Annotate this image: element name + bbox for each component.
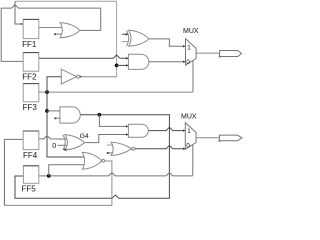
wire FF1 D input from top rail <box>15 1 23 24</box>
flip-flop FF1 <box>23 19 39 38</box>
wire FF1 output to OR0 top input <box>39 27 63 29</box>
svg-text:MUX: MUX <box>181 113 197 120</box>
or-gate OR0 (top) <box>60 23 80 38</box>
svg-text:FF1: FF1 <box>22 40 37 49</box>
node pin2 corner dot <box>219 140 221 142</box>
wire XOR1 output to MUX1 input 1 <box>149 39 186 46</box>
svg-text:FF3: FF3 <box>23 103 38 112</box>
wire MUX2 output to pin <box>196 137 219 139</box>
wire MUX1 select from FF3 output <box>192 61 194 93</box>
nor-gate OR3 (bottom right) <box>111 142 131 155</box>
wire OR3 output to MUX2 input 0, hop at x=169.4 <box>135 145 186 148</box>
wire FF5 output rail with hops at x=111.9 and x=169.4 <box>39 173 193 176</box>
and-gate AND0 (top right) <box>128 54 148 69</box>
flip-flop FF4 <box>23 131 39 150</box>
wire FF2 output to AND0 top input with hop at x=116.6 <box>39 55 129 58</box>
wire OR4 output loop to FF4 input <box>4 161 112 205</box>
and-gate AND1 (left middle) <box>60 107 80 123</box>
node junction dot FF5 output <box>47 174 51 178</box>
svg-text:0: 0 <box>186 143 190 150</box>
output pin PIN1 <box>220 51 242 57</box>
wire FF5 output branch to OR4 bottom input <box>49 165 86 176</box>
node junction dot FF3 output at x=47 <box>45 90 49 94</box>
wire AND2 output to MUX2 input 1, hop at x=169.4 <box>148 127 185 130</box>
svg-text:G4: G4 <box>80 133 89 140</box>
svg-text:0: 0 <box>186 59 190 66</box>
flip-flop FF3 <box>23 84 39 102</box>
wire OR3 bottom input stub (unconnected) <box>107 152 114 154</box>
svg-text:1: 1 <box>187 45 191 52</box>
svg-text:1: 1 <box>187 128 191 135</box>
wire FF4 output to G4 top input, hop at x=47 <box>39 136 67 140</box>
xor-gate XOR1 (top right) <box>129 30 149 46</box>
wire MUX2 select from FF5 output <box>192 145 194 176</box>
wire AND1 output feedback to FF5 input, hop at x=111.9 <box>15 115 169 199</box>
wire AND0 output to MUX1 input 0 <box>149 61 186 63</box>
wire AND0 lower input <box>117 64 129 66</box>
wire x=47 vertical rail to inverter input and OR4 <box>47 77 86 157</box>
node junction dot AND1 output branch <box>98 113 102 117</box>
wire OR0 output loop to FF2 input, hop at x=15 <box>1 5 101 62</box>
mux MUX2 <box>185 123 196 149</box>
output pin PIN2 <box>219 135 242 141</box>
inverter INV <box>61 69 76 84</box>
wire XOR1 top input stub <box>122 33 128 35</box>
node junction dot AND0 lower input <box>115 64 119 68</box>
wire G4 output to AND2 bottom input <box>84 135 128 143</box>
and-gate AND2 (bottom right) <box>128 124 148 137</box>
node junction dot AND1 top input <box>45 109 49 113</box>
wire MUX1 output to pin <box>196 52 219 54</box>
wire G4 const-0 dash to lower stub <box>58 144 67 146</box>
wire branch to AND2 top input <box>99 115 128 127</box>
mux MUX1 <box>186 39 197 65</box>
wire OR0 lower input stub (unconnected) <box>55 33 63 35</box>
wire inverter output horizontal <box>80 76 117 78</box>
wire AND1 top input <box>47 110 60 112</box>
node pin1 corner dot <box>219 56 221 58</box>
wire inverter output feedback vertical x=116.6 <box>116 1 118 76</box>
wire OR3 top input stub (unconnected) <box>107 144 114 146</box>
svg-text:FF5: FF5 <box>22 184 37 193</box>
nor-gate OR4 (bottom left) <box>82 152 101 169</box>
flip-flop FF5 <box>23 166 38 184</box>
node FF1 input arrowhead <box>21 23 23 25</box>
flip-flop FF2 <box>23 53 39 72</box>
svg-text:0: 0 <box>52 143 56 150</box>
svg-text:FF2: FF2 <box>22 73 37 82</box>
wire top feedback rail y=1 <box>15 0 117 2</box>
wire AND1 bottom input stub (unconnected) <box>55 117 62 119</box>
wire FF3 output rail <box>39 91 193 93</box>
wire XOR1 bottom input stub <box>122 41 128 43</box>
svg-text:MUX: MUX <box>183 28 199 35</box>
xor-gate G4 <box>65 135 85 150</box>
svg-text:FF4: FF4 <box>23 151 38 160</box>
